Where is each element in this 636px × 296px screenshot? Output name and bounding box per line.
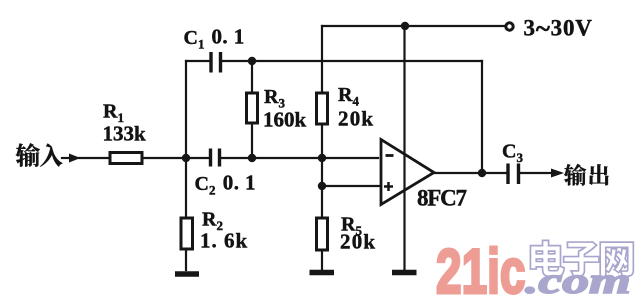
svg-text:20k: 20k bbox=[340, 230, 376, 254]
capacitor C1 plates bbox=[211, 52, 221, 73]
junction node A bbox=[182, 154, 190, 162]
ground under R2 bbox=[175, 271, 199, 277]
wire op-amp output bbox=[433, 172, 506, 174]
svg-text:8FC7: 8FC7 bbox=[417, 186, 467, 211]
capacitor C3 plates bbox=[508, 164, 519, 185]
wire R4 branch from power bbox=[321, 26, 323, 93]
wire input stub bbox=[62, 157, 70, 159]
wire R2 to ground bbox=[185, 249, 187, 270]
wire R4 bottom to R5 bbox=[321, 124, 323, 218]
svg-text:R4: R4 bbox=[338, 84, 359, 109]
wire feedback right drop bbox=[481, 61, 483, 173]
svg-text:C3: C3 bbox=[502, 141, 523, 166]
resistor R2 bbox=[181, 218, 193, 249]
wire feedback rail y61 bbox=[186, 60, 482, 62]
svg-text:C1: C1 bbox=[184, 27, 205, 52]
junction node power rail / op-amp supply bbox=[401, 22, 409, 30]
wire C2 to op-amp minus input bbox=[221, 157, 378, 159]
wire op-amp supply vertical bbox=[403, 26, 405, 270]
label input 输入 bbox=[16, 143, 63, 167]
op-amp plus sign bbox=[384, 182, 393, 191]
logo 电子网 bbox=[530, 240, 633, 276]
ground under op-amp bbox=[392, 270, 417, 276]
wire C3 to output arrow bbox=[521, 172, 552, 174]
svg-text:133k: 133k bbox=[103, 122, 147, 146]
junction node C2/R3 bottom bbox=[248, 154, 256, 162]
resistor R3 bbox=[247, 93, 258, 123]
svg-text:21ic: 21ic bbox=[436, 236, 525, 296]
svg-text:0. 1: 0. 1 bbox=[223, 171, 256, 195]
ground under R5 bbox=[310, 270, 335, 276]
svg-text:3~30V: 3~30V bbox=[524, 14, 593, 44]
wire R1 to C2 bbox=[142, 157, 209, 159]
svg-text:C2: C2 bbox=[195, 173, 216, 198]
op-amp minus sign bbox=[386, 154, 394, 157]
junction node R4 bottom / minus input bbox=[318, 154, 326, 162]
wire node A vertical up bbox=[185, 61, 187, 158]
wire plus input bbox=[322, 185, 381, 187]
label output 输出 bbox=[564, 164, 609, 186]
output arrow head bbox=[551, 169, 564, 178]
junction node output / feedback bbox=[478, 169, 486, 177]
capacitor C2 plates bbox=[211, 149, 220, 167]
resistor R5 bbox=[317, 218, 328, 250]
resistor R4 bbox=[317, 93, 328, 124]
wire input to R1 bbox=[79, 157, 110, 159]
svg-text:20k: 20k bbox=[338, 107, 374, 131]
wire node A down to R2 bbox=[185, 158, 187, 218]
input arrow head bbox=[69, 154, 81, 163]
junction node C1/R3 top bbox=[248, 57, 256, 65]
op-amp U1 triangle bbox=[381, 140, 434, 205]
svg-text:160k: 160k bbox=[263, 108, 307, 132]
svg-text:0. 1: 0. 1 bbox=[212, 25, 245, 49]
junction node plus input / R5 top bbox=[318, 182, 326, 190]
wire R5 to ground bbox=[321, 250, 323, 270]
svg-text:1. 6k: 1. 6k bbox=[200, 229, 248, 253]
wire power rail bbox=[322, 25, 504, 27]
wire R3 branch bbox=[251, 61, 253, 158]
resistor R1 bbox=[110, 153, 142, 164]
power terminal circle bbox=[506, 23, 513, 30]
